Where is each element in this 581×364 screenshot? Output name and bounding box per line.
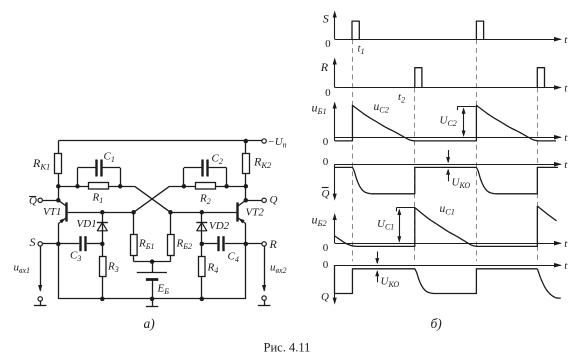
svg-text:R: R [269,237,278,251]
svg-text:0: 0 [325,87,331,99]
svg-text:0: 0 [325,38,331,50]
svg-text:б): б) [431,316,443,331]
svg-text:0: 0 [323,242,329,254]
svg-text:Q: Q [322,188,330,200]
svg-text:0: 0 [323,136,329,148]
svg-text:Рис. 4.11: Рис. 4.11 [264,341,311,355]
svg-text:0: 0 [323,259,329,271]
svg-text:VD2: VD2 [209,220,230,232]
svg-text:Q: Q [270,194,278,206]
svg-text:S: S [30,235,36,249]
svg-text:VD1: VD1 [77,218,97,230]
svg-text:а): а) [144,316,156,331]
svg-text:R: R [320,60,329,74]
svg-text:VT1: VT1 [43,206,61,218]
svg-text:VT2: VT2 [246,207,265,219]
svg-text:Q: Q [321,291,329,303]
svg-text:0: 0 [323,156,329,168]
svg-text:S: S [323,11,329,25]
